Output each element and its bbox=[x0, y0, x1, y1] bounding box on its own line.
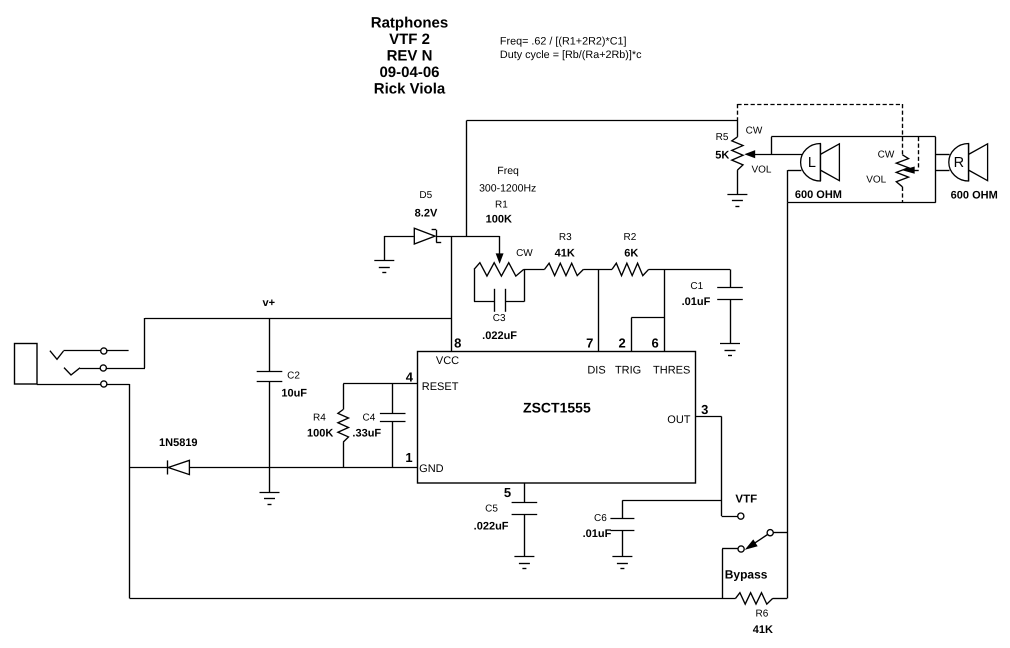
svg-text:C6: C6 bbox=[594, 513, 607, 524]
svg-text:1: 1 bbox=[405, 450, 412, 465]
svg-text:7: 7 bbox=[586, 335, 593, 350]
svg-text:VTF: VTF bbox=[735, 494, 757, 506]
svg-text:4: 4 bbox=[406, 369, 414, 384]
svg-text:v+: v+ bbox=[263, 297, 276, 309]
svg-text:THRES: THRES bbox=[653, 364, 690, 376]
svg-text:41K: 41K bbox=[555, 247, 575, 259]
svg-text:R5: R5 bbox=[716, 132, 729, 143]
svg-text:R: R bbox=[954, 155, 964, 171]
svg-text:CW: CW bbox=[746, 126, 763, 137]
svg-text:2: 2 bbox=[618, 335, 625, 350]
svg-text:R3: R3 bbox=[559, 232, 572, 243]
svg-text:R1: R1 bbox=[495, 199, 508, 210]
svg-text:OUT: OUT bbox=[667, 414, 691, 426]
svg-text:VCC: VCC bbox=[436, 355, 459, 367]
svg-text:CW: CW bbox=[516, 248, 533, 259]
svg-text:Freq: Freq bbox=[497, 165, 519, 177]
svg-text:6: 6 bbox=[651, 335, 658, 350]
svg-text:09-04-06: 09-04-06 bbox=[379, 64, 439, 81]
svg-text:Rick Viola: Rick Viola bbox=[374, 80, 446, 97]
svg-text:3: 3 bbox=[701, 402, 708, 417]
svg-text:GND: GND bbox=[419, 463, 444, 475]
svg-text:Duty cycle = [Rb/(Ra+2Rb)]*c: Duty cycle = [Rb/(Ra+2Rb)]*c bbox=[500, 49, 642, 61]
svg-text:.33uF: .33uF bbox=[352, 428, 381, 440]
svg-text:C1: C1 bbox=[690, 281, 703, 292]
svg-text:RESET: RESET bbox=[422, 381, 459, 393]
svg-text:.022uF: .022uF bbox=[474, 521, 509, 533]
svg-text:Bypass: Bypass bbox=[725, 567, 768, 581]
svg-text:600 OHM: 600 OHM bbox=[795, 189, 842, 201]
svg-text:6K: 6K bbox=[624, 247, 638, 259]
svg-text:VOL: VOL bbox=[751, 165, 771, 176]
svg-text:TRIG: TRIG bbox=[615, 365, 641, 377]
svg-text:ZSCT1555: ZSCT1555 bbox=[523, 399, 591, 415]
svg-text:Freq= .62 / [(R1+2R2)*C1]: Freq= .62 / [(R1+2R2)*C1] bbox=[500, 36, 627, 48]
svg-text:VOL: VOL bbox=[866, 174, 886, 185]
svg-text:100K: 100K bbox=[307, 428, 333, 440]
svg-text:VTF 2: VTF 2 bbox=[389, 31, 430, 48]
svg-text:1N5819: 1N5819 bbox=[159, 437, 198, 449]
svg-text:41K: 41K bbox=[753, 624, 773, 636]
svg-text:C5: C5 bbox=[485, 503, 498, 514]
svg-text:R6: R6 bbox=[756, 609, 769, 620]
svg-text:8.2V: 8.2V bbox=[415, 207, 438, 219]
svg-text:10uF: 10uF bbox=[281, 387, 307, 399]
svg-text:300-1200Hz: 300-1200Hz bbox=[479, 182, 536, 194]
svg-text:R2: R2 bbox=[624, 232, 637, 243]
svg-text:C3: C3 bbox=[493, 313, 506, 324]
svg-text:100K: 100K bbox=[486, 213, 512, 225]
svg-text:L: L bbox=[808, 155, 816, 171]
svg-text:C4: C4 bbox=[363, 413, 376, 424]
svg-text:R4: R4 bbox=[313, 413, 326, 424]
svg-text:.01uF: .01uF bbox=[583, 528, 612, 540]
svg-text:REV N: REV N bbox=[387, 48, 433, 65]
svg-text:.022uF: .022uF bbox=[482, 330, 517, 342]
svg-text:5: 5 bbox=[504, 485, 511, 500]
svg-text:C2: C2 bbox=[287, 371, 300, 382]
svg-text:Ratphones: Ratphones bbox=[371, 15, 449, 32]
svg-text:CW: CW bbox=[878, 150, 895, 161]
svg-text:DIS: DIS bbox=[587, 364, 605, 376]
svg-text:600 OHM: 600 OHM bbox=[951, 189, 998, 201]
svg-text:D5: D5 bbox=[419, 190, 432, 201]
svg-text:8: 8 bbox=[454, 335, 461, 350]
svg-text:.01uF: .01uF bbox=[682, 296, 711, 308]
svg-text:5K: 5K bbox=[715, 149, 729, 161]
